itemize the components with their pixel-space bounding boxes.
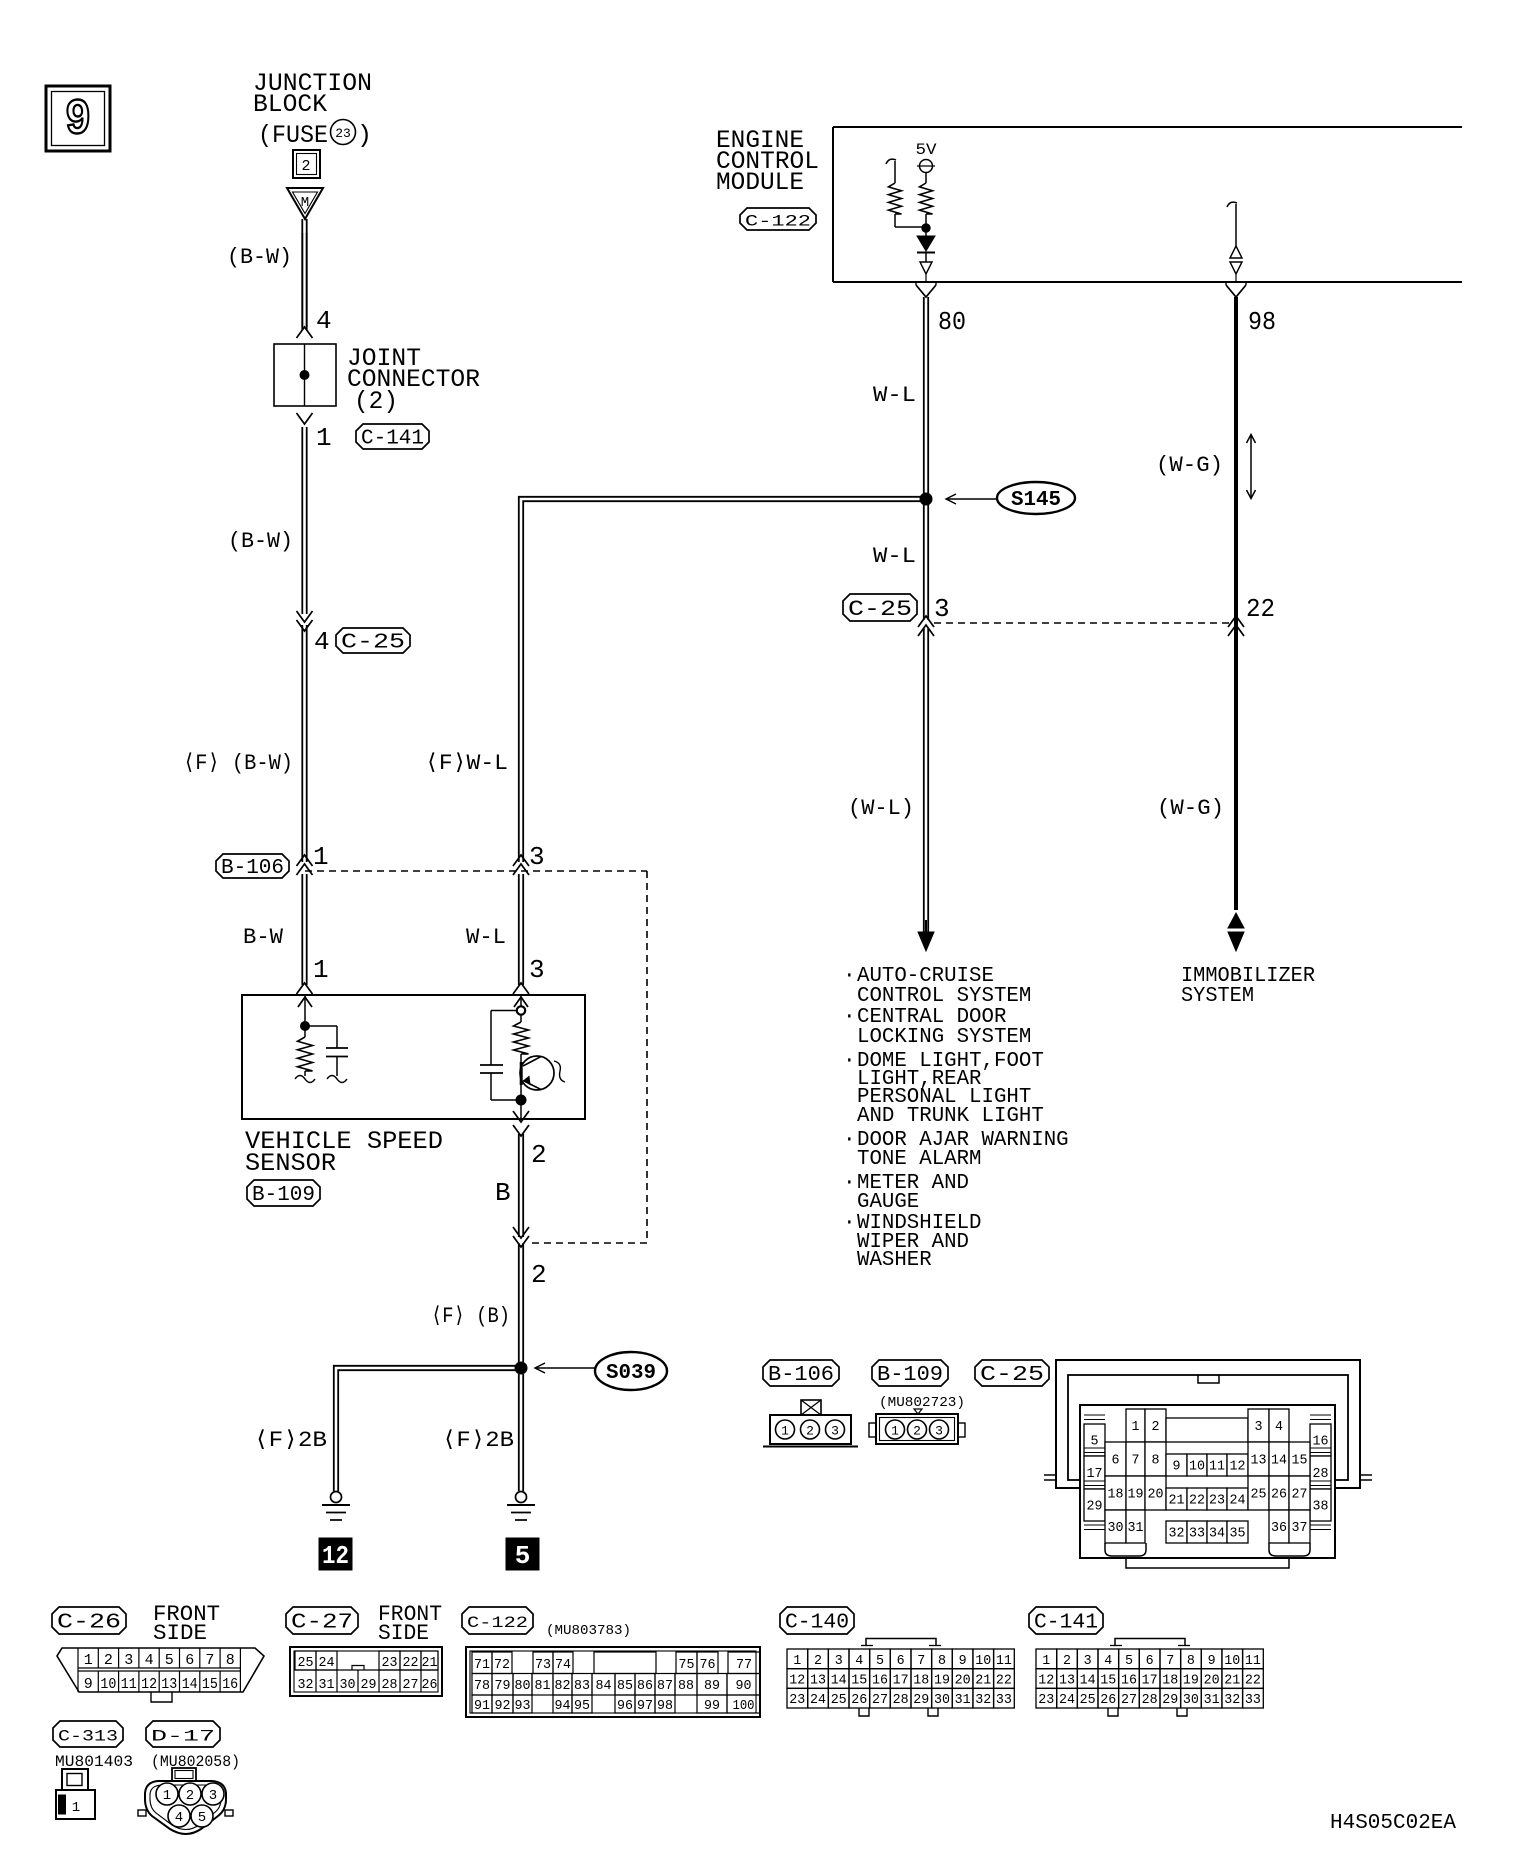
wire label W-L (upper) [873,383,916,408]
svg-text:·: · [843,1212,856,1235]
svg-text:14: 14 [182,1676,198,1693]
svg-text:21: 21 [1169,1493,1185,1509]
svg-text:30: 30 [1183,1692,1199,1708]
connector view C-27 [290,1647,442,1696]
svg-text:MODULE: MODULE [716,168,804,197]
connector label C-141 [356,424,429,450]
svg-text:11: 11 [121,1676,137,1693]
wire W-L from ECM pin 80 [924,297,928,620]
svg-text:21: 21 [1224,1673,1240,1689]
svg-text:24: 24 [319,1655,335,1671]
svg-text:1: 1 [781,1424,789,1439]
svg-text:1: 1 [1042,1653,1050,1669]
svg-text:22: 22 [1189,1493,1205,1509]
svg-text:28: 28 [382,1677,398,1693]
svg-text:24: 24 [810,1692,826,1708]
svg-text:B-106: B-106 [768,1364,834,1387]
svg-text:5: 5 [876,1653,884,1669]
svg-text:14: 14 [1080,1673,1096,1689]
svg-text:28: 28 [893,1692,909,1708]
svg-text:25: 25 [298,1655,314,1671]
svg-text:8: 8 [226,1652,235,1669]
svg-text:75: 75 [679,1657,695,1673]
svg-text:·: · [843,1050,856,1073]
svg-text:23: 23 [382,1655,398,1671]
part number MU803783 [546,1623,631,1639]
pin 1 label [316,423,332,453]
in-line connector C-25 crossing (W-L wire) [918,616,934,636]
svg-text:⟨F⟩ (B-W): ⟨F⟩ (B-W) [183,751,293,776]
sensor output transistor [520,1056,565,1090]
svg-text:2: 2 [806,1424,814,1439]
sensor internal wire pin3 [514,995,528,1015]
svg-text:2: 2 [301,158,310,175]
connector view C-122 [466,1647,760,1717]
wire <F>(B) to S039 [519,1243,523,1368]
pin 1 label above B-106 [313,842,329,872]
svg-text:25: 25 [1251,1487,1267,1503]
ECM internal lead pin 98 [1227,202,1237,246]
engine control module box C-122 [833,127,1462,282]
wire W-G from ECM pin 98 (thick) [1234,297,1238,910]
svg-text:17: 17 [1142,1673,1158,1689]
connector view C-25 pin cells [1084,1409,1331,1568]
page number 9 box [46,86,110,151]
arrow end W-G bidirectional [1228,913,1244,951]
chevron into sensor pin 1 [297,983,313,994]
svg-text:⟨F⟩W-L: ⟨F⟩W-L [425,751,508,776]
connector label C-25 (bottom) [975,1360,1049,1387]
wire <F>(B-W) C-25 to B-106 [302,625,306,862]
svg-text:15: 15 [202,1676,218,1693]
connector label C-313 [53,1721,123,1747]
connector label B-109 (sensor) [247,1180,320,1207]
svg-text:C-27: C-27 [291,1611,353,1634]
svg-text:4: 4 [1275,1419,1283,1435]
svg-text:M: M [301,195,309,211]
svg-text:82: 82 [555,1678,571,1694]
svg-text:⟨F⟩ (B): ⟨F⟩ (B) [431,1304,510,1329]
svg-text:3: 3 [831,1424,839,1439]
svg-text:·: · [843,1006,856,1029]
ECM 5V supply [916,141,937,183]
svg-text:2: 2 [1063,1653,1071,1669]
svg-text:SYSTEM: SYSTEM [1181,985,1254,1008]
svg-text:13: 13 [810,1673,826,1689]
svg-text:6: 6 [1146,1653,1154,1669]
svg-text:3: 3 [1255,1419,1263,1435]
sensor internal capacitor (left) [305,1026,348,1083]
connector chevron pin 4 [297,327,313,338]
connector label C-25 (middle) [843,594,917,622]
svg-text:W-L: W-L [466,925,506,950]
svg-text:2: 2 [913,1424,921,1439]
pin 2 label [531,1140,547,1170]
svg-text:⟨F⟩2B: ⟨F⟩2B [442,1428,514,1453]
svg-text:C-26: C-26 [57,1611,121,1634]
svg-text:C-141: C-141 [361,427,424,450]
svg-text:100: 100 [733,1698,755,1714]
svg-text:5: 5 [515,1541,531,1571]
connector view C-25 outer shell [1044,1360,1372,1488]
svg-text:LOCKING SYSTEM: LOCKING SYSTEM [857,1026,1031,1049]
svg-text:23: 23 [1038,1692,1054,1708]
svg-text:71: 71 [474,1657,490,1673]
connector label B-106 (left) [216,854,289,880]
connector label C-141 [1029,1607,1103,1634]
pin 3 label above B-106 [529,842,545,872]
svg-text:78: 78 [474,1678,490,1694]
svg-text:80: 80 [938,307,966,337]
pin 22 label [1246,594,1275,624]
svg-text:31: 31 [1128,1520,1144,1536]
svg-text:1: 1 [313,955,329,985]
S039 callout [535,1352,667,1390]
svg-text:9: 9 [1208,1653,1216,1669]
svg-text:SENSOR: SENSOR [245,1149,336,1178]
svg-text:13: 13 [1059,1673,1075,1689]
svg-text:27: 27 [1292,1487,1308,1503]
svg-text:AND TRUNK LIGHT: AND TRUNK LIGHT [857,1105,1044,1128]
svg-text:13: 13 [1251,1453,1267,1469]
svg-text:94: 94 [555,1698,571,1714]
destination label immobilizer system [1181,965,1315,1008]
svg-text:C-122: C-122 [745,212,811,230]
svg-text:26: 26 [422,1677,438,1693]
ECM bidirectional arrows pin 98 [1230,246,1242,282]
svg-text:14: 14 [1271,1453,1287,1469]
svg-text:16: 16 [1313,1434,1329,1450]
ECM output arrow pin 80 [920,262,932,282]
svg-text:5: 5 [1125,1653,1133,1669]
svg-text:21: 21 [975,1673,991,1689]
sensor internal resistor (right) [514,1015,529,1101]
svg-text:22: 22 [996,1673,1012,1689]
connector view C-141 [1036,1639,1263,1717]
svg-text:26: 26 [1100,1692,1116,1708]
ECM internal diode [917,236,935,262]
wire (B-W) from fuse to joint connector pin 4 [302,219,306,330]
svg-text:⟨F⟩2B: ⟨F⟩2B [254,1428,327,1453]
wire to ground right [519,1374,523,1491]
pin 3 label at sensor [529,955,545,985]
pin 4 label below C-25 [314,627,330,657]
svg-text:3: 3 [529,955,545,985]
connector label B-109 (bottom) [872,1360,948,1387]
svg-text:7: 7 [917,1653,925,1669]
connector label C-122 (bottom) [462,1607,533,1634]
svg-text:1: 1 [84,1652,93,1669]
ECM internal resistor to pin 80 [920,183,933,236]
svg-text:B-106: B-106 [221,857,284,880]
svg-text:6: 6 [185,1652,194,1669]
connector view D-17 [138,1768,233,1834]
svg-text:(W-L): (W-L) [848,796,914,821]
svg-text:S039: S039 [606,1362,656,1385]
svg-text:28: 28 [1142,1692,1158,1708]
svg-text:18: 18 [913,1673,929,1689]
wire label <F>2B (left) [254,1428,327,1453]
svg-text:97: 97 [637,1698,653,1714]
connector view B-109 [869,1395,965,1444]
svg-text:17: 17 [893,1673,909,1689]
svg-text:(2): (2) [354,387,398,416]
svg-text:31: 31 [1204,1692,1220,1708]
svg-text:30: 30 [1108,1520,1124,1536]
svg-text:1: 1 [1132,1419,1140,1435]
connector label C-140 [780,1607,854,1634]
svg-text:C-122: C-122 [467,1614,528,1632]
svg-text:33: 33 [1245,1692,1261,1708]
svg-text:9: 9 [1173,1459,1181,1475]
wire label (W-G) lower [1157,796,1224,821]
connector view C-26 [57,1648,264,1702]
svg-text:93: 93 [515,1698,531,1714]
wire (W-L) to systems [924,628,928,933]
svg-text:26: 26 [851,1692,867,1708]
chevrons below sensor pin 2 [513,1111,529,1136]
front side label (C-27) [378,1602,442,1646]
svg-text:37: 37 [1292,1520,1308,1536]
svg-text:20: 20 [1148,1487,1164,1503]
svg-text:3: 3 [529,842,545,872]
svg-text:91: 91 [474,1698,490,1714]
svg-text:22: 22 [1245,1673,1261,1689]
connector view C-25 pin block [1080,1405,1335,1558]
svg-text:16: 16 [1121,1673,1137,1689]
sensor internal junction dot [516,1095,526,1119]
svg-text:24: 24 [1059,1692,1075,1708]
svg-text:10: 10 [100,1676,116,1693]
svg-text:3: 3 [209,1788,217,1804]
front side label (C-26) [153,1602,220,1646]
svg-text:19: 19 [934,1673,950,1689]
part number MU801403 [55,1753,133,1771]
pin 2 label below [531,1260,547,1290]
connector view C-140 [787,1639,1014,1717]
svg-text:12: 12 [789,1673,805,1689]
svg-text:33: 33 [996,1692,1012,1708]
pin 98 label [1248,307,1276,337]
svg-text:4: 4 [145,1652,154,1669]
svg-text:29: 29 [1087,1499,1103,1515]
in-line connector B-106 crossing chevrons (W-L wire) [513,855,529,875]
svg-text:2: 2 [531,1260,547,1290]
svg-text:12: 12 [1230,1459,1246,1475]
in-line connector B-106 crossing (B wire) [513,1227,529,1247]
wire label <F> (B-W) [183,751,293,776]
svg-text:10: 10 [1189,1459,1205,1475]
wire label B [495,1178,511,1208]
svg-text:·: · [843,965,856,988]
svg-text:4: 4 [314,627,330,657]
svg-text:2: 2 [186,1788,194,1804]
wire label W-L [466,925,506,950]
sensor internal capacitor (right) [480,1011,517,1101]
svg-text:11: 11 [996,1653,1012,1669]
svg-text:20: 20 [1204,1673,1220,1689]
svg-text:CONTROL SYSTEM: CONTROL SYSTEM [857,985,1031,1008]
svg-text:33: 33 [1189,1526,1205,1542]
chevron below joint connector [297,413,313,424]
connector label C-122 (ECM) [740,208,816,230]
svg-text:5: 5 [198,1810,206,1826]
svg-text:28: 28 [1313,1466,1329,1482]
svg-text:95: 95 [574,1698,590,1714]
svg-text:): ) [357,121,372,150]
svg-text:15: 15 [1292,1453,1308,1469]
wire label <F>W-L [425,751,508,776]
svg-text:C-313: C-313 [58,1727,118,1745]
svg-text:TONE ALARM: TONE ALARM [857,1148,982,1171]
svg-text:9: 9 [84,1676,93,1693]
wire label (W-L) [848,796,914,821]
fuse number 23 circle [331,120,373,151]
svg-text:W-L: W-L [873,383,916,408]
svg-text:92: 92 [495,1698,511,1714]
in-line connector C-25 crossing (W-G wire) [1228,616,1244,636]
svg-text:35: 35 [1230,1526,1246,1542]
svg-text:32: 32 [1224,1692,1240,1708]
svg-text:1: 1 [72,1800,80,1816]
svg-text:C-141: C-141 [1034,1611,1098,1634]
dashed connector line B-106 [305,871,647,1243]
svg-text:14: 14 [831,1673,847,1689]
svg-text:·: · [843,1129,856,1152]
wire (B-W) joint connector to C-25 [302,427,306,614]
svg-text:25: 25 [1080,1692,1096,1708]
drawing code H4S05C02EA [1330,1812,1456,1835]
svg-text:2: 2 [531,1140,547,1170]
svg-text:13: 13 [161,1676,177,1693]
svg-text:D-17: D-17 [151,1727,215,1745]
svg-text:12: 12 [322,1541,349,1571]
svg-text:18: 18 [1108,1487,1124,1503]
svg-text:12: 12 [141,1676,157,1693]
engine control module label [716,126,819,197]
svg-text:3: 3 [934,594,950,624]
wire B sensor to B-106 [519,1134,523,1237]
connector label C-26 [52,1607,126,1634]
svg-text:38: 38 [1313,1499,1329,1515]
svg-text:2: 2 [1152,1419,1160,1435]
svg-text:1: 1 [891,1424,899,1439]
joint connector C-141 box [274,344,336,406]
svg-text:9: 9 [65,92,91,149]
svg-text:W-L: W-L [873,544,916,569]
svg-text:29: 29 [913,1692,929,1708]
svg-text:6: 6 [897,1653,905,1669]
ECM internal pull resistor (left) [886,159,926,227]
connector label C-27 [286,1607,358,1634]
svg-text:BLOCK: BLOCK [253,90,327,119]
splice junction S039 [515,1362,527,1374]
svg-text:17: 17 [1087,1466,1103,1482]
svg-text:15: 15 [851,1673,867,1689]
joint connector label [347,344,480,416]
svg-text:4: 4 [1104,1653,1112,1669]
svg-text:98: 98 [1248,307,1276,337]
svg-text:11: 11 [1245,1653,1261,1669]
svg-text:8: 8 [1152,1453,1160,1469]
svg-text:6: 6 [1112,1453,1120,1469]
ground number 5 [506,1538,539,1571]
svg-text:21: 21 [422,1655,438,1671]
svg-text:73: 73 [535,1657,551,1673]
ground symbol left [322,1492,350,1521]
svg-text:4: 4 [175,1810,183,1826]
svg-text:79: 79 [495,1678,511,1694]
svg-text:89: 89 [704,1678,720,1694]
svg-text:23: 23 [1209,1493,1225,1509]
svg-text:12: 12 [1038,1673,1054,1689]
junction block label [253,69,372,150]
svg-text:(W-G): (W-G) [1156,453,1223,478]
svg-text:86: 86 [637,1678,653,1694]
svg-text:1: 1 [163,1788,171,1804]
svg-text:19: 19 [1128,1487,1144,1503]
sensor name label [245,1127,443,1178]
svg-text:72: 72 [494,1657,510,1673]
in-line connector B-106 crossing chevrons (left wire) [297,855,313,875]
svg-text:15: 15 [1100,1673,1116,1689]
svg-text:30: 30 [934,1692,950,1708]
svg-text:98: 98 [657,1698,673,1714]
svg-text:10: 10 [1224,1653,1240,1669]
svg-text:30: 30 [340,1677,356,1693]
pin 80 label [938,307,966,337]
connector label D-17 [146,1721,220,1747]
splice junction S145 [920,493,932,505]
svg-text:31: 31 [319,1677,335,1693]
svg-text:(B-W): (B-W) [228,529,293,554]
svg-text:7: 7 [1132,1453,1140,1469]
svg-text:36: 36 [1271,1520,1287,1536]
svg-text:B: B [495,1178,511,1208]
svg-text:C-25: C-25 [848,597,912,622]
svg-text:3: 3 [1084,1653,1092,1669]
svg-text:31: 31 [955,1692,971,1708]
wire label B-W [243,925,284,950]
ground branch wire left [334,1366,519,1491]
svg-text:5: 5 [1091,1434,1099,1450]
svg-text:24: 24 [1230,1493,1246,1509]
wire label (B-W) [227,245,292,270]
svg-text:B-109: B-109 [252,1184,315,1207]
svg-text:26: 26 [1271,1487,1287,1503]
svg-text:WASHER: WASHER [857,1249,932,1272]
ground number 12 [319,1538,352,1571]
svg-text:1: 1 [793,1653,801,1669]
svg-text:18: 18 [1162,1673,1178,1689]
svg-text:10: 10 [975,1653,991,1669]
svg-text:(FUSE: (FUSE [258,121,328,150]
svg-text:C-140: C-140 [785,1611,849,1634]
svg-text:88: 88 [678,1678,694,1694]
svg-text:C-25: C-25 [980,1364,1044,1387]
svg-text:16: 16 [872,1673,888,1689]
svg-text:23: 23 [335,126,351,141]
sensor internal wire pin1 [298,995,312,1031]
svg-text:SIDE: SIDE [378,1621,429,1646]
chevron into sensor pin 3 [513,983,529,994]
svg-text:84: 84 [596,1678,612,1694]
svg-text:3: 3 [935,1424,943,1439]
svg-text:32: 32 [975,1692,991,1708]
pin 3 label [934,594,950,624]
svg-text:4: 4 [855,1653,863,1669]
destination list W-L [843,965,1069,1272]
